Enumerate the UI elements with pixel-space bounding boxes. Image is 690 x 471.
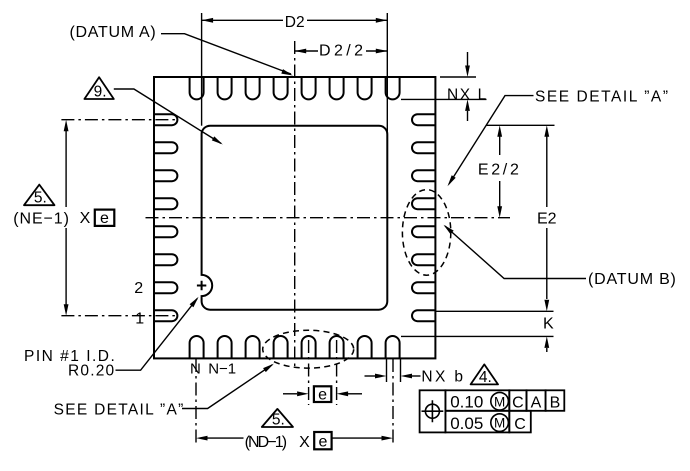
dimension e pin pitch: [308, 340, 310, 405]
svg-text:(ND−1): (ND−1): [245, 434, 287, 451]
svg-text:1: 1: [135, 310, 144, 327]
svg-text:K: K: [543, 316, 554, 333]
svg-text:e: e: [318, 387, 327, 404]
terminal bottom pin 2: [218, 336, 232, 358]
terminal top pin 5: [302, 77, 316, 99]
terminal left pin 4: [154, 198, 177, 209]
note flag triangle 4: [471, 364, 498, 384]
D2 extension line right: [386, 13, 388, 134]
terminal bottom pin 6: [330, 336, 344, 358]
svg-text:A: A: [531, 395, 542, 412]
dimension D2/2: [295, 50, 388, 52]
package body outline: [154, 77, 435, 358]
svg-text:E2: E2: [537, 211, 557, 228]
svg-text:M: M: [494, 394, 505, 409]
svg-text:9.: 9.: [94, 84, 107, 101]
terminal right pin 7: [412, 282, 435, 293]
svg-text:(NE−1): (NE−1): [13, 210, 70, 227]
terminal left pin 5: [154, 226, 177, 237]
terminal right pin 3: [412, 170, 435, 181]
modifier M circled row1: [491, 392, 509, 410]
terminal top pin 3: [246, 77, 260, 99]
terminal left pin 2: [154, 142, 177, 153]
dimension E2: [546, 137, 548, 300]
svg-text:5.: 5.: [272, 412, 285, 429]
svg-text:N: N: [190, 361, 201, 378]
dimension NX b pin width: [387, 358, 401, 382]
dimension D2: [202, 19, 388, 21]
svg-text:E2/2: E2/2: [478, 162, 522, 179]
dimension NX L: [440, 76, 476, 78]
terminal left pin 8: [154, 310, 177, 321]
dimension (NE-1) X e: [61, 119, 176, 121]
modifier M circled row2: [491, 414, 509, 432]
terminal bottom pin 5: [302, 336, 316, 358]
svg-text:D2/2: D2/2: [319, 42, 366, 59]
terminal right pin 5: [412, 226, 435, 237]
dimension K: [546, 348, 548, 352]
terminal top pin 4: [274, 77, 288, 99]
svg-text:2: 2: [134, 280, 143, 297]
terminal left pin 6: [154, 254, 177, 265]
dimension E2/2: [499, 137, 501, 208]
svg-text:C: C: [514, 416, 526, 433]
terminal top pin 6: [330, 77, 344, 99]
note flag triangle 5 left: [24, 185, 55, 206]
terminal left pin 1: [154, 114, 177, 125]
terminal top pin 2: [218, 77, 232, 99]
svg-text:R0.20: R0.20: [68, 363, 115, 380]
terminal bottom pin 1: [190, 336, 204, 358]
D2 extension line left: [201, 13, 203, 126]
detail A ellipse right: [402, 190, 450, 276]
detail A ellipse bottom: [263, 330, 354, 368]
svg-text:e: e: [100, 210, 109, 227]
svg-text:(DATUM A): (DATUM A): [70, 24, 157, 41]
svg-text:(DATUM B): (DATUM B): [588, 271, 677, 288]
terminal bottom pin 7: [358, 336, 372, 358]
terminal right pin 8: [412, 310, 435, 321]
svg-text:SEE DETAIL ”A”: SEE DETAIL ”A”: [54, 402, 185, 419]
svg-text:M: M: [494, 416, 505, 431]
svg-text:B: B: [550, 395, 561, 412]
dimension (ND-1) X e: [195, 359, 197, 446]
svg-text:C: C: [512, 395, 524, 412]
note flag triangle 5 bottom: [262, 409, 293, 427]
terminal top pin 8: [386, 77, 400, 99]
terminal left pin 3: [154, 170, 177, 181]
terminal bottom pin 8: [386, 336, 400, 358]
pin 1 ID center cross: [197, 281, 206, 290]
vertical centerline: [294, 41, 296, 368]
GD&T feature control frame: [420, 390, 565, 432]
svg-text:0.05: 0.05: [450, 414, 483, 433]
svg-text:NX L: NX L: [447, 86, 488, 103]
terminal top pin 1: [190, 77, 204, 99]
svg-text:NX b: NX b: [421, 369, 465, 386]
exposed pad with pin 1 ID notch: [202, 126, 388, 310]
terminal bottom pin 3: [246, 336, 260, 358]
svg-text:SEE DETAIL ”A”: SEE DETAIL ”A”: [535, 88, 670, 105]
svg-text:N−1: N−1: [208, 361, 236, 378]
terminal left pin 7: [154, 282, 177, 293]
svg-text:D2: D2: [285, 14, 305, 31]
svg-text:X: X: [299, 434, 310, 451]
svg-text:e: e: [319, 433, 328, 450]
terminal top pin 7: [358, 77, 372, 99]
pad top extension line: [487, 124, 555, 126]
svg-text:0.10: 0.10: [450, 393, 483, 412]
terminal right pin 4: [412, 198, 435, 209]
position symbol: [425, 404, 439, 418]
pad bottom extension line: [436, 310, 554, 312]
svg-text:4.: 4.: [479, 369, 492, 386]
svg-text:X: X: [80, 210, 91, 227]
terminal right pin 6: [412, 254, 435, 265]
svg-text:5.: 5.: [34, 190, 47, 207]
note flag triangle 9 with leader: [84, 77, 113, 99]
bottom pins tip extension line: [401, 335, 554, 337]
terminal right pin 1: [412, 114, 435, 125]
horizontal centerline: [146, 217, 511, 219]
terminal bottom pin 4: [274, 336, 288, 358]
terminal right pin 2: [412, 142, 435, 153]
